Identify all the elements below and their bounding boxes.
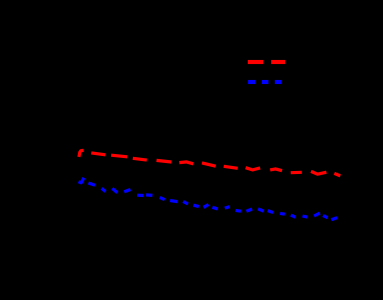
blue dashed curve (series 2)	[79, 178, 338, 220]
legend blue line sample	[248, 80, 282, 84]
legend red line sample	[248, 60, 285, 64]
red dashed curve (series 1)	[79, 150, 340, 176]
